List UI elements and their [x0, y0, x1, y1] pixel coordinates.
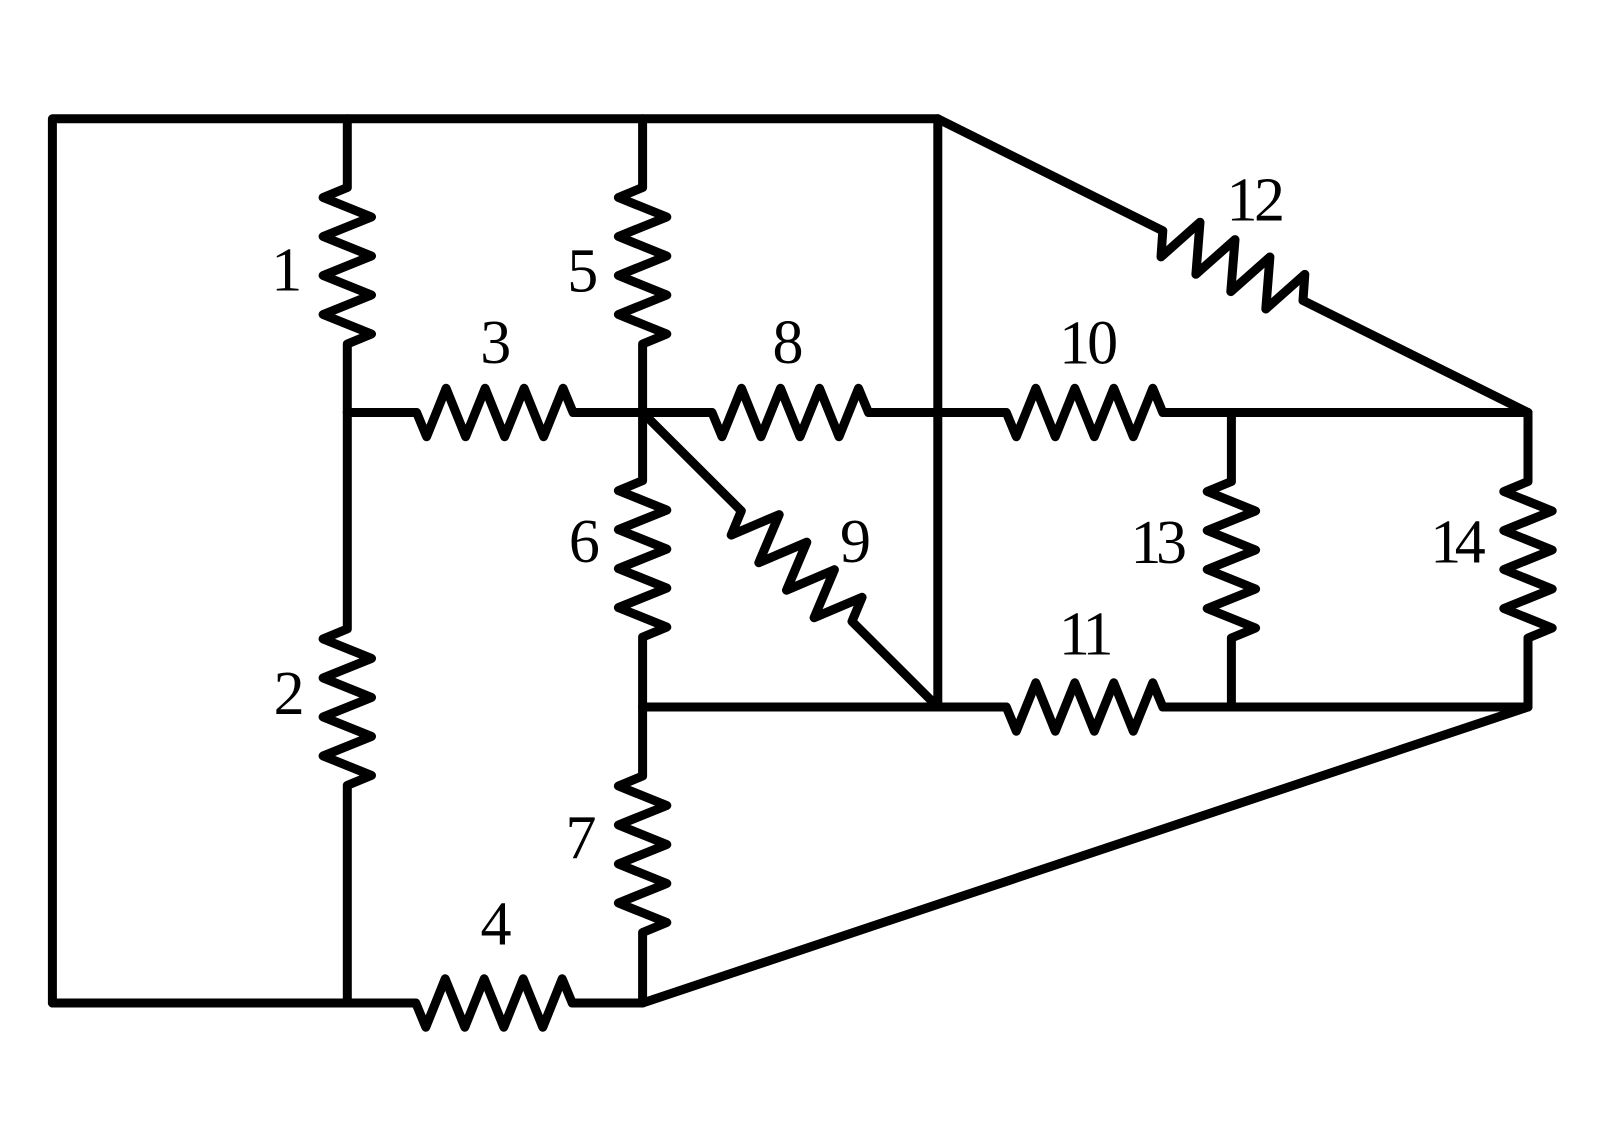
svg-text:6: 6: [569, 508, 600, 576]
svg-text:9: 9: [840, 508, 871, 576]
svg-text:12: 12: [1226, 167, 1285, 235]
svg-text:5: 5: [567, 238, 598, 306]
svg-text:14: 14: [1430, 508, 1486, 576]
svg-text:13: 13: [1131, 509, 1188, 577]
svg-text:4: 4: [481, 890, 512, 958]
svg-text:10: 10: [1059, 310, 1118, 378]
svg-text:7: 7: [566, 804, 597, 872]
svg-text:3: 3: [480, 309, 511, 377]
svg-text:2: 2: [274, 660, 305, 728]
svg-text:1: 1: [271, 237, 302, 305]
svg-text:8: 8: [773, 309, 804, 377]
svg-text:11: 11: [1059, 600, 1114, 668]
